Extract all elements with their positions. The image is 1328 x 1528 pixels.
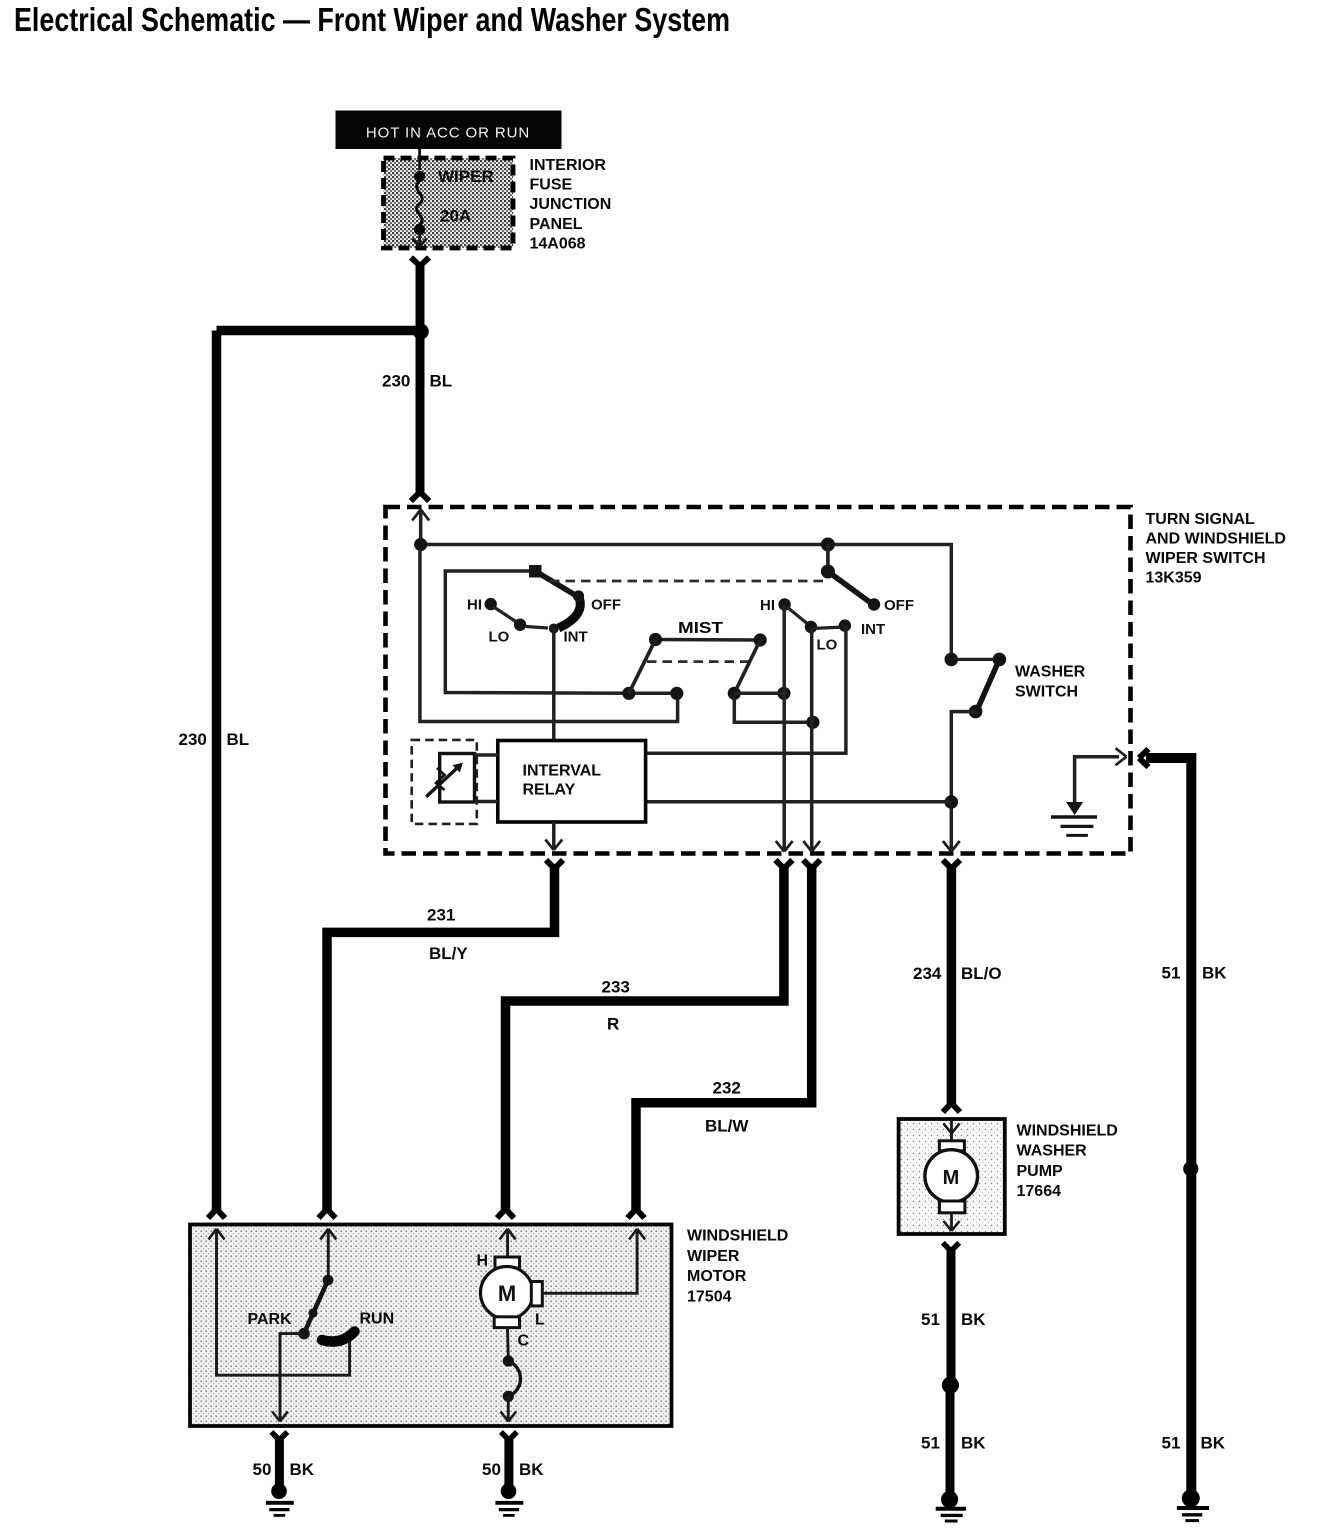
wire: run feed entry (231): [320, 1229, 336, 1280]
svg-text:LO: LO: [817, 637, 838, 654]
wire: inner frame of switch 1: [445, 571, 629, 693]
terminal W1: [945, 653, 959, 667]
wire 233 R: switch HI to wiper motor H: [497, 860, 792, 1218]
switch S1 pivot (square): [529, 565, 542, 578]
terminal INT (S1): [549, 624, 559, 634]
wire 231 BL/Y: relay output to wiper motor: [319, 860, 564, 1218]
svg-text:51: 51: [921, 1310, 940, 1329]
washer pump motor M2: [925, 1120, 978, 1231]
stub HI to LO (S1): [493, 607, 518, 624]
ground (inside switch): [1051, 802, 1097, 835]
wire 230 BL: fuse panel down to junction: [411, 258, 429, 332]
wiper motor M1: [477, 1229, 546, 1350]
label: INTERIOR FUSE JUNCTION PANEL 14A068: [530, 157, 612, 252]
label: WINDSHIELD WASHER PUMP 17664: [1017, 1122, 1118, 1200]
switch S2 wiper arm: [828, 572, 871, 604]
stub W1 to washer pivot: [958, 658, 993, 661]
svg-text:230: 230: [179, 730, 207, 749]
switch S2 pivot: [826, 545, 830, 572]
svg-text:M: M: [943, 1167, 960, 1189]
svg-text:WASHER: WASHER: [1015, 664, 1086, 681]
svg-text:14A068: 14A068: [530, 235, 586, 252]
wire: pot to relay (upper): [475, 753, 498, 757]
svg-text:BL: BL: [430, 372, 453, 391]
wire: relay output to node F: [647, 800, 952, 804]
svg-text:H: H: [477, 1253, 489, 1270]
stub LO to INT (S1): [526, 627, 548, 629]
wire: HI2 down through node D to box edge: [782, 605, 786, 852]
svg-text:WINDSHIELD: WINDSHIELD: [1017, 1122, 1118, 1139]
label: WINDSHIELD WIPER MOTOR 17504: [687, 1228, 788, 1306]
wire: MIST left diagonal to node A: [629, 640, 656, 694]
splice S51: [1183, 1161, 1198, 1176]
wire: internal ground run to box edge (right): [1075, 757, 1119, 804]
svg-text:JUNCTION: JUNCTION: [530, 196, 612, 213]
wire banner to fuse: [418, 149, 421, 170]
svg-text:BK: BK: [1202, 964, 1227, 983]
circuit breaker CB (motor common): [501, 1328, 521, 1422]
variable delay resistor R1 (dashed box): [412, 740, 477, 824]
svg-text:LO: LO: [489, 629, 510, 646]
wire 230 continues down to switch box: [416, 332, 425, 493]
svg-text:BK: BK: [290, 1460, 315, 1479]
wire: node A to node B: [629, 692, 678, 696]
svg-text:HI: HI: [760, 597, 775, 614]
junction S230: [413, 324, 429, 340]
wire 51 BK: switch ground to right ground: [1139, 749, 1227, 1494]
ground G4 (right): [1177, 1489, 1209, 1520]
node A: [622, 687, 635, 700]
svg-text:R: R: [607, 1015, 619, 1034]
svg-text:OFF: OFF: [884, 597, 914, 614]
node F (relay line joins washer wire): [945, 795, 959, 809]
terminal HI (S2): [778, 598, 790, 610]
run contact crescent: [322, 1332, 355, 1342]
node B: [670, 687, 683, 700]
washer switch arm: [978, 659, 1000, 709]
wire: MIST right diagonal to node C: [734, 640, 760, 693]
svg-text:BL/O: BL/O: [961, 964, 1002, 983]
svg-text:MIST: MIST: [678, 620, 723, 637]
svg-text:51: 51: [1162, 964, 1181, 983]
svg-text:BK: BK: [1201, 1434, 1226, 1453]
svg-text:232: 232: [713, 1079, 741, 1098]
ground G3 (washer pump): [936, 1491, 966, 1521]
linkage MIST (dashed): [647, 660, 748, 663]
wire: node C down and right to node E: [734, 693, 813, 722]
wire: INT2 down then left to interval relay: [647, 626, 846, 754]
linkage S1 to S2 (dashed): [550, 580, 824, 583]
svg-text:INTERIOR: INTERIOR: [530, 157, 607, 174]
wire: INT (S1) down to interval relay: [552, 629, 556, 743]
svg-text:WINDSHIELD: WINDSHIELD: [687, 1228, 788, 1245]
svg-text:M: M: [498, 1281, 516, 1306]
node C: [728, 687, 741, 700]
svg-text:INT: INT: [861, 621, 885, 638]
windshield wiper motor box 17504: [190, 1225, 672, 1427]
svg-text:234: 234: [913, 964, 942, 983]
wire 232 BL/W: switch LO to wiper motor L: [628, 860, 821, 1218]
label: TURN SIGNAL AND WINDSHIELD WIPER SWITCH 13K359: [1146, 511, 1286, 587]
switch S2 feed node J2: [821, 538, 835, 552]
svg-text:RELAY: RELAY: [523, 782, 576, 799]
svg-text:WIPER SWITCH: WIPER SWITCH: [1146, 550, 1266, 567]
ground G1 (wiper motor park): [266, 1483, 294, 1515]
svg-text:Electrical Schematic — Front W: Electrical Schematic — Front Wiper and W…: [14, 1, 730, 38]
node E: [806, 716, 819, 729]
svg-text:PANEL: PANEL: [530, 216, 583, 233]
svg-text:AND WINDSHIELD: AND WINDSHIELD: [1146, 530, 1286, 547]
wire: park feed entry (230): [209, 1229, 350, 1375]
turn signal and windshield wiper switch box 13K359: [386, 507, 1131, 854]
stub HI to LO (S2): [787, 607, 809, 625]
wire: left frame down and across to node B: [420, 545, 678, 722]
svg-text:50: 50: [253, 1460, 272, 1479]
svg-text:230: 230: [382, 372, 410, 391]
svg-text:OFF: OFF: [591, 597, 621, 614]
svg-text:PARK: PARK: [248, 1311, 293, 1328]
svg-text:17664: 17664: [1017, 1183, 1062, 1200]
wire 230 BL left vertical to wiper motor: [212, 331, 222, 1211]
svg-text:TURN SIGNAL: TURN SIGNAL: [1146, 511, 1256, 528]
svg-text:BL/W: BL/W: [705, 1117, 749, 1136]
svg-text:231: 231: [427, 906, 455, 925]
interval relay box U1: [498, 741, 646, 823]
svg-text:BL/Y: BL/Y: [429, 944, 468, 963]
wire: bus from node J1 to washer switch corner: [421, 545, 952, 660]
svg-text:BL: BL: [227, 730, 250, 749]
node J1: [414, 538, 427, 551]
windshield washer pump box 17664: [899, 1119, 1005, 1234]
svg-text:BK: BK: [961, 1310, 986, 1329]
fuse WIPER 20A: [413, 167, 494, 247]
svg-text:233: 233: [602, 978, 630, 997]
svg-text:SWITCH: SWITCH: [1015, 684, 1078, 701]
svg-text:INT: INT: [564, 629, 588, 646]
terminal LO (S2): [805, 621, 817, 633]
terminal INT (S2): [839, 619, 851, 631]
wire: feed entry arrow into switch box: [412, 510, 429, 521]
wire: park pivot to ground exit: [280, 1334, 304, 1420]
wire 51 BK: splice to ground: [946, 1385, 955, 1493]
svg-text:C: C: [518, 1333, 530, 1350]
wire 51 BK: washer pump to ground: [921, 1243, 986, 1385]
switch S1 wiper arm and arc: [535, 571, 576, 596]
switch MIST contacts: [656, 638, 761, 642]
svg-text:17504: 17504: [687, 1288, 732, 1305]
terminal LO (S1): [514, 619, 526, 631]
park/run switch S3: [323, 1275, 334, 1286]
washer switch lower contact: [969, 705, 983, 719]
interior fuse junction panel box 14A068: [384, 158, 514, 248]
svg-text:WIPER: WIPER: [687, 1248, 740, 1265]
svg-text:51: 51: [921, 1434, 940, 1453]
wire: LO2 down through node E to box edge: [810, 627, 814, 851]
wire: pot to relay (lower): [475, 800, 498, 804]
svg-text:13K359: 13K359: [1146, 570, 1202, 587]
svg-text:HI: HI: [467, 597, 482, 614]
svg-text:50: 50: [482, 1460, 501, 1479]
wire: motor L to 232 entry: [542, 1229, 645, 1294]
svg-text:20A: 20A: [440, 207, 471, 226]
svg-text:WASHER: WASHER: [1017, 1143, 1088, 1160]
wire LO2 to INT2: [811, 627, 845, 629]
svg-text:PUMP: PUMP: [1017, 1163, 1064, 1180]
wire: node C to node D: [734, 692, 784, 696]
wire 50 BK (park side): [253, 1432, 315, 1485]
svg-text:BK: BK: [519, 1460, 544, 1479]
node D: [777, 687, 790, 700]
svg-text:INTERVAL: INTERVAL: [523, 763, 602, 780]
washer switch pivot: [993, 653, 1007, 667]
wire: washer contact left and down through node F to box edge: [951, 712, 975, 851]
svg-text:MOTOR: MOTOR: [687, 1268, 747, 1285]
ground G2 (wiper motor common): [495, 1483, 523, 1515]
wire 234 BL/O: washer switch to washer pump: [913, 860, 1002, 1112]
wire 50 BK (motor common side): [482, 1432, 544, 1485]
wire branch left at y330: [217, 326, 421, 336]
svg-text:BK: BK: [961, 1434, 986, 1453]
svg-text:L: L: [535, 1312, 545, 1329]
svg-text:51: 51: [1162, 1434, 1181, 1453]
banner HOT IN ACC OR RUN: [336, 111, 562, 150]
splice S57: [942, 1377, 959, 1394]
wire: relay output down to box edge: [552, 822, 556, 849]
terminal HI (S1): [485, 598, 497, 610]
terminal OFF (S1): [573, 590, 584, 601]
svg-text:FUSE: FUSE: [530, 177, 573, 194]
svg-text:RUN: RUN: [360, 1311, 395, 1328]
svg-text:HOT IN ACC OR RUN: HOT IN ACC OR RUN: [366, 125, 530, 142]
terminal OFF (S2): [868, 598, 880, 610]
svg-text:WIPER: WIPER: [438, 167, 494, 186]
